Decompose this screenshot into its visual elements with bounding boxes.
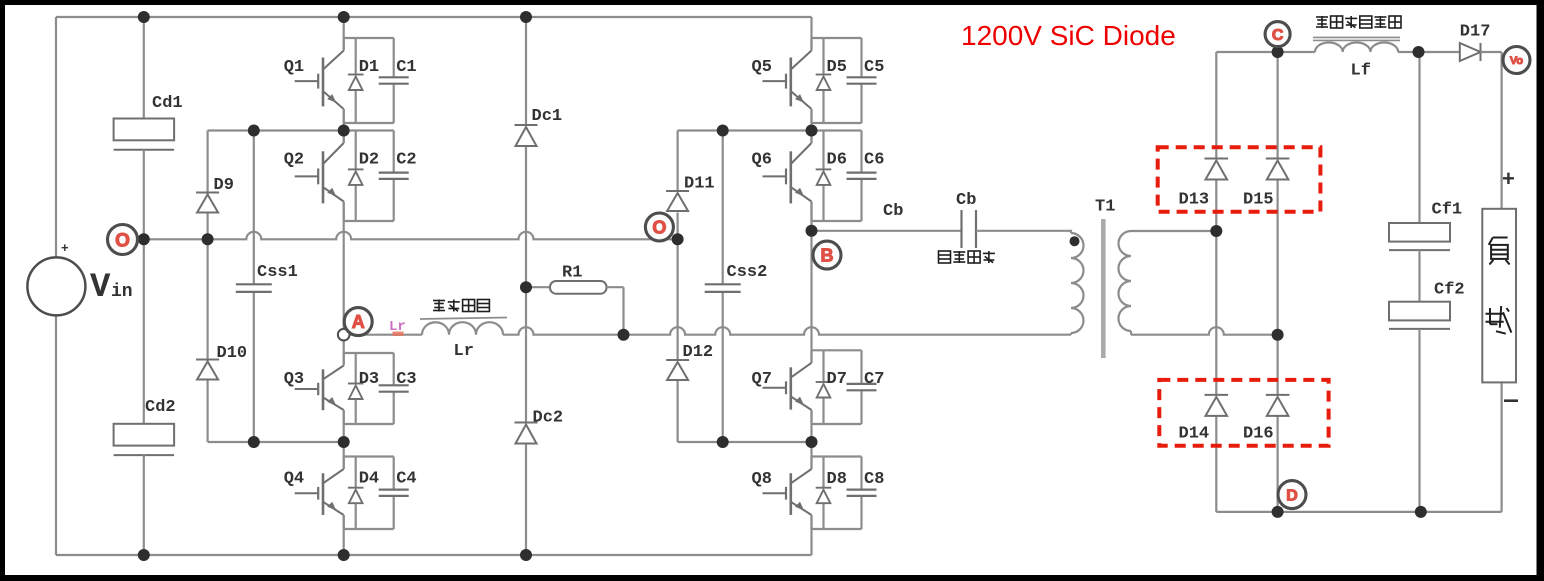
svg-text:D8: D8 bbox=[827, 470, 847, 489]
svg-text:Cd2: Cd2 bbox=[145, 398, 176, 417]
svg-text:C3: C3 bbox=[396, 370, 416, 389]
svg-text:Q5: Q5 bbox=[752, 58, 772, 77]
svg-text:+: + bbox=[61, 240, 69, 255]
svg-text:C: C bbox=[1272, 27, 1284, 44]
svg-text:Q3: Q3 bbox=[284, 370, 304, 389]
svg-text:Dc1: Dc1 bbox=[532, 107, 563, 126]
svg-text:Cf2: Cf2 bbox=[1434, 281, 1465, 300]
svg-text:D12: D12 bbox=[683, 343, 714, 362]
svg-text:D13: D13 bbox=[1179, 191, 1210, 210]
svg-text:C4: C4 bbox=[396, 470, 416, 489]
svg-text:1200V SiC Diode: 1200V SiC Diode bbox=[961, 20, 1176, 51]
svg-text:Css1: Css1 bbox=[257, 263, 298, 282]
svg-text:O: O bbox=[652, 218, 666, 238]
svg-text:Vo: Vo bbox=[1510, 55, 1524, 67]
svg-text:D15: D15 bbox=[1243, 191, 1274, 210]
svg-text:Cb: Cb bbox=[883, 202, 903, 221]
svg-text:A: A bbox=[352, 312, 365, 332]
svg-text:D2: D2 bbox=[359, 151, 379, 170]
svg-text:C6: C6 bbox=[864, 151, 884, 170]
svg-text:D5: D5 bbox=[827, 58, 847, 77]
svg-text:D: D bbox=[1286, 487, 1298, 504]
svg-text:D6: D6 bbox=[827, 151, 847, 170]
svg-text:D10: D10 bbox=[217, 344, 248, 363]
svg-text:Cd1: Cd1 bbox=[152, 94, 183, 113]
svg-text:D14: D14 bbox=[1179, 425, 1210, 444]
svg-text:D9: D9 bbox=[214, 176, 234, 195]
svg-text:D17: D17 bbox=[1460, 23, 1491, 42]
svg-text:Q4: Q4 bbox=[284, 470, 304, 489]
svg-text:Q7: Q7 bbox=[752, 370, 772, 389]
svg-text:Q8: Q8 bbox=[752, 470, 772, 489]
svg-text:O: O bbox=[115, 230, 130, 251]
svg-text:Lr: Lr bbox=[454, 342, 474, 361]
svg-text:Dc2: Dc2 bbox=[533, 409, 564, 428]
svg-text:V: V bbox=[90, 269, 111, 307]
svg-text:T1: T1 bbox=[1095, 198, 1115, 217]
svg-text:Q6: Q6 bbox=[752, 151, 772, 170]
svg-text:D1: D1 bbox=[359, 58, 379, 77]
svg-text:Cf1: Cf1 bbox=[1432, 201, 1463, 220]
svg-text:Css2: Css2 bbox=[727, 263, 768, 282]
svg-text:Q1: Q1 bbox=[284, 58, 304, 77]
svg-text:R1: R1 bbox=[562, 264, 582, 283]
svg-text:D7: D7 bbox=[827, 370, 847, 389]
svg-text:C1: C1 bbox=[396, 58, 416, 77]
svg-text:D16: D16 bbox=[1243, 425, 1274, 444]
svg-text:B: B bbox=[821, 246, 834, 266]
svg-text:Q2: Q2 bbox=[284, 151, 304, 170]
svg-text:C8: C8 bbox=[864, 470, 884, 489]
svg-text:+: + bbox=[1502, 166, 1515, 191]
svg-text:Lf: Lf bbox=[1351, 62, 1371, 81]
svg-text:D4: D4 bbox=[359, 470, 379, 489]
svg-text:in: in bbox=[111, 282, 133, 302]
svg-text:C5: C5 bbox=[864, 58, 884, 77]
svg-text:C2: C2 bbox=[396, 151, 416, 170]
svg-text:C7: C7 bbox=[864, 370, 884, 389]
svg-text:D11: D11 bbox=[684, 175, 715, 194]
svg-text:D3: D3 bbox=[359, 370, 379, 389]
svg-text:Cb: Cb bbox=[956, 191, 976, 210]
